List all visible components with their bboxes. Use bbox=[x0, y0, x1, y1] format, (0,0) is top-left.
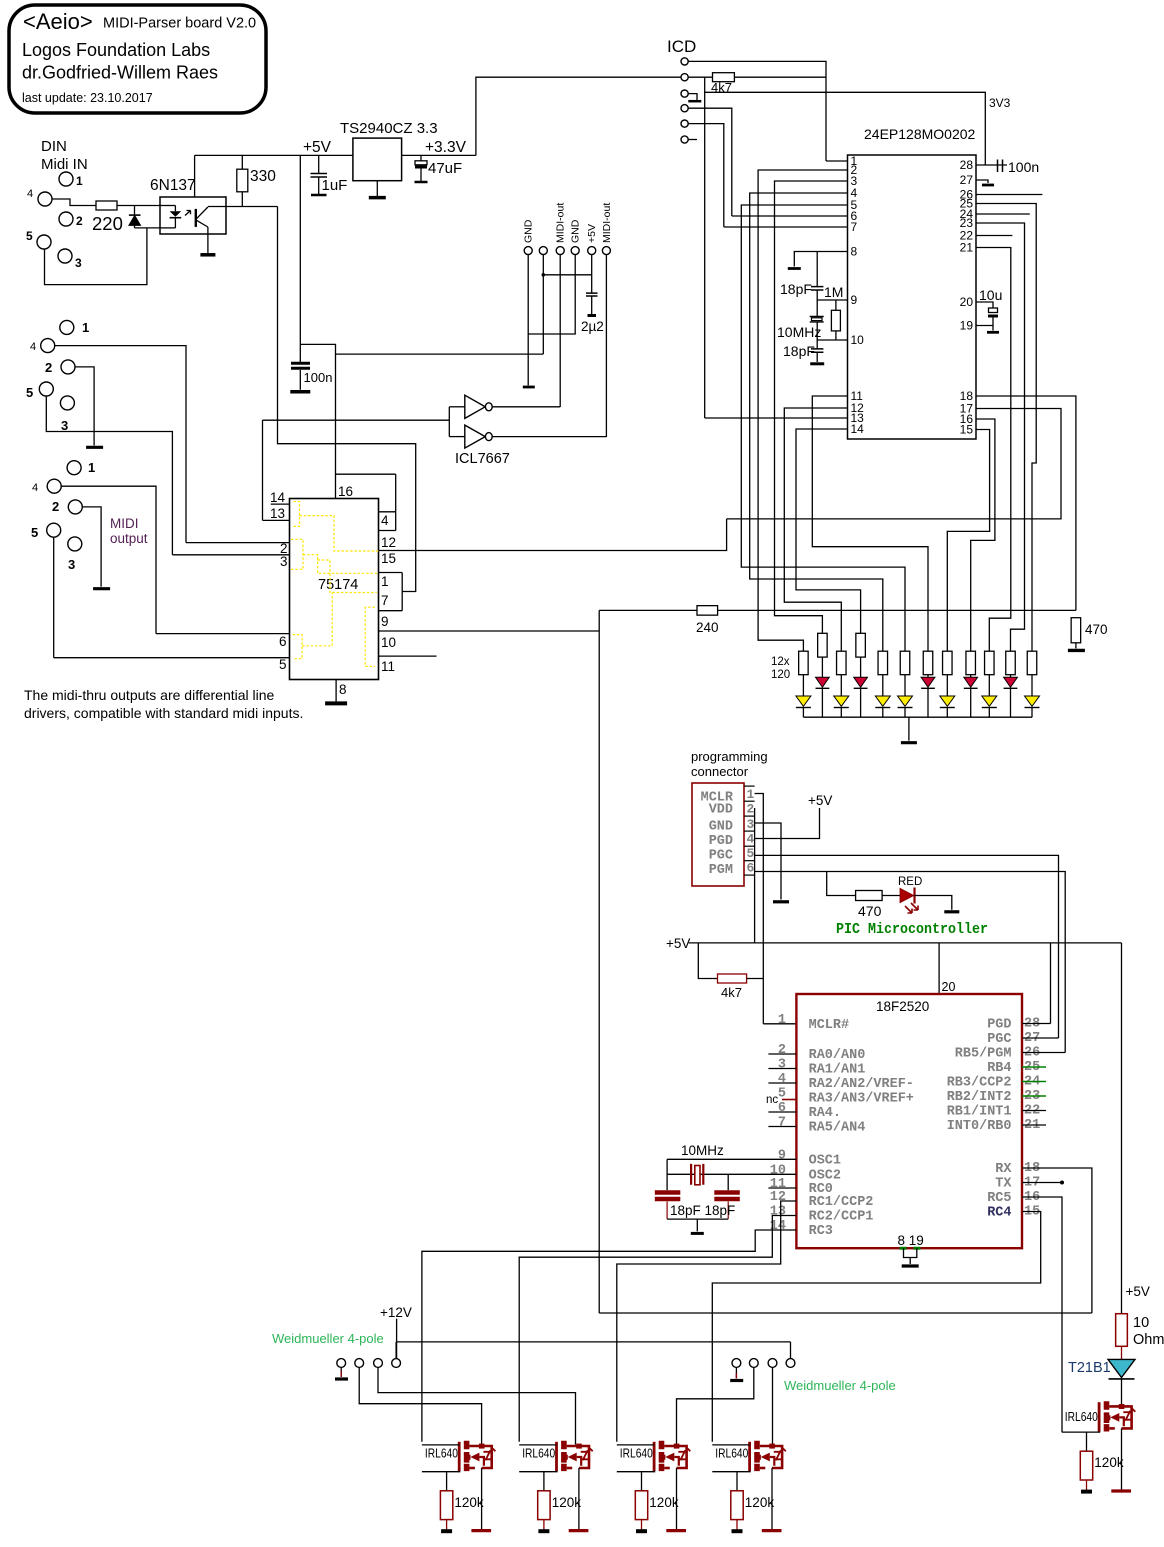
wire header gnd bbox=[527, 255, 529, 386]
regulator TS2940CZ bbox=[353, 138, 402, 181]
header pin 6 bbox=[602, 247, 610, 255]
wire xtal bbox=[816, 300, 818, 317]
header pin 5 bbox=[588, 247, 596, 255]
wire 330 bottom bbox=[241, 192, 243, 207]
svg-text:120k: 120k bbox=[745, 1495, 775, 1510]
svg-text:8: 8 bbox=[339, 682, 347, 697]
wire J1 p4 bbox=[755, 808, 820, 839]
LED yellow col1 bbox=[796, 696, 811, 706]
DIN-out1 pin 5 bbox=[39, 382, 53, 396]
Weidmueller1 pin 3 bbox=[374, 1359, 383, 1368]
svg-text:RA4.: RA4. bbox=[809, 1106, 841, 1121]
wire out2 p4 to 75174 pin6 bbox=[61, 486, 156, 633]
wire U4 pin14 stub bbox=[271, 503, 290, 505]
wire pins4-12 tie bbox=[395, 474, 397, 530]
wire U5 gnd stem bbox=[909, 1258, 911, 1265]
svg-text:1uF: 1uF bbox=[322, 177, 348, 194]
svg-text:3V3: 3V3 bbox=[989, 96, 1011, 110]
svg-text:4: 4 bbox=[778, 1072, 786, 1087]
wire U2 pin6 bbox=[732, 215, 848, 217]
resistor 120 col7 bbox=[923, 651, 933, 675]
inverter U3A ICL7667 bbox=[465, 395, 485, 418]
wire col4 to rail bbox=[860, 688, 862, 717]
wire LED gnd bbox=[908, 717, 910, 741]
svg-text:20: 20 bbox=[960, 295, 974, 309]
resistor 470 (LED) bbox=[856, 891, 883, 901]
svg-text:4: 4 bbox=[30, 341, 36, 353]
wire +12V drop bbox=[396, 1319, 398, 1359]
wire J1 p3 gnd bbox=[755, 823, 781, 900]
svg-text:2: 2 bbox=[45, 360, 52, 375]
LED yellow col5 bbox=[875, 696, 890, 706]
svg-text:last update: 23.10.2017: last update: 23.10.2017 bbox=[22, 91, 153, 105]
svg-text:3: 3 bbox=[778, 1058, 786, 1073]
resistor 120 col9 bbox=[966, 651, 976, 675]
wire U5 pin28 bbox=[1022, 1023, 1051, 1025]
wire ICD3 gnd bbox=[688, 94, 697, 100]
DIN-out2 pin 2 bbox=[68, 500, 82, 514]
svg-text:120k: 120k bbox=[649, 1495, 679, 1510]
svg-text:PGD: PGD bbox=[709, 834, 733, 849]
wire U5 pin10 OSC2 bbox=[667, 1173, 796, 1175]
wire pin20 bbox=[938, 943, 940, 994]
ground U2 pin27 bbox=[982, 184, 994, 187]
Weidmueller1 pin 1 bbox=[337, 1359, 346, 1368]
wire U4 pin7 bbox=[379, 610, 403, 612]
wire ICD4 PGD bbox=[688, 108, 732, 216]
wire pin19 gnd bbox=[992, 326, 994, 331]
wire cap2 to rail bbox=[727, 1202, 729, 1220]
wire U5 pin2 stub bbox=[768, 1053, 796, 1055]
svg-text:18pF 18pF: 18pF 18pF bbox=[670, 1203, 735, 1218]
svg-text:IRL640: IRL640 bbox=[620, 1447, 653, 1461]
svg-text:The midi-thru outputs are diff: The midi-thru outputs are differential l… bbox=[24, 687, 275, 703]
wire U2 pin17 link bbox=[727, 409, 1061, 519]
wire 3V3 riser bbox=[476, 77, 681, 155]
LED yellow col10 bbox=[982, 696, 997, 706]
wire LED common rail bbox=[803, 716, 1032, 718]
svg-text:15: 15 bbox=[960, 423, 974, 437]
wire U5 TX bbox=[1022, 1182, 1062, 1184]
svg-text:4: 4 bbox=[747, 832, 755, 847]
ground W1 bbox=[335, 1377, 348, 1380]
svg-text:3: 3 bbox=[280, 554, 288, 569]
wire U4 pin10 stub bbox=[379, 655, 437, 657]
svg-text:20: 20 bbox=[942, 980, 956, 994]
wire +5V rail bbox=[195, 154, 353, 156]
wire DIN5 return bbox=[45, 228, 147, 285]
svg-text:6: 6 bbox=[778, 1101, 786, 1116]
wire col3 bbox=[840, 675, 842, 696]
wire out1 p2 gnd bbox=[75, 367, 94, 446]
Weidmueller2 pin 2 bbox=[749, 1359, 758, 1368]
wire col12 bbox=[1031, 675, 1033, 696]
ground DIN-out2 bbox=[93, 587, 110, 590]
svg-text:240: 240 bbox=[696, 620, 719, 635]
DIN-in pin 4 bbox=[38, 192, 52, 206]
svg-text:GND: GND bbox=[523, 219, 535, 243]
wire U2 pin16 to LED col9 bbox=[971, 419, 995, 651]
wire +5V to 75174 pin16 bbox=[300, 344, 335, 498]
wire 240 left bbox=[599, 609, 697, 611]
inverter U3B ICL7667 bbox=[465, 425, 485, 448]
wire 470 gnd bbox=[1075, 643, 1077, 649]
svg-text:IRL640: IRL640 bbox=[522, 1447, 555, 1461]
svg-text:RB1/INT1: RB1/INT1 bbox=[947, 1105, 1012, 1120]
DIN-out2 pin 5 bbox=[47, 523, 61, 537]
LED red col9 bbox=[964, 677, 978, 687]
resistor 10 Ohm bbox=[1116, 1314, 1128, 1347]
svg-text:4: 4 bbox=[27, 188, 33, 200]
wire xtal gnd rail bbox=[667, 1218, 728, 1220]
wire tie to vcc bbox=[336, 473, 396, 475]
wire bbox=[835, 300, 837, 310]
svg-text:PGC: PGC bbox=[709, 849, 733, 864]
wire RX long vertical bbox=[598, 610, 600, 1313]
crystal 10MHz (PIC) bbox=[691, 1164, 703, 1185]
wire U2 pin22 stub bbox=[976, 235, 1012, 237]
wire W1 p2 to Q1 drain bbox=[359, 1367, 481, 1444]
wire U4 pin9 long bbox=[379, 630, 600, 632]
LED yellow col8 bbox=[940, 696, 955, 706]
ground U2 pin8 bbox=[788, 267, 801, 270]
svg-text:15: 15 bbox=[381, 551, 396, 566]
wire 4k7 to MCLR bbox=[734, 76, 826, 78]
wire inv1 in bbox=[449, 406, 465, 408]
svg-text:dr.Godfried-Willem Raes: dr.Godfried-Willem Raes bbox=[22, 63, 218, 83]
svg-text:RB4: RB4 bbox=[987, 1061, 1011, 1076]
wire U2 pin19 bbox=[976, 325, 993, 327]
ground U4 bbox=[325, 701, 347, 705]
resistor 220 bbox=[96, 201, 117, 210]
Weidmueller2 pin 1 bbox=[732, 1359, 741, 1368]
wire col2 to rail bbox=[821, 688, 823, 717]
resistor 330 bbox=[237, 169, 248, 192]
wire U2 pin23 to LED col11 bbox=[976, 223, 1025, 651]
capacitor 2u2 bbox=[586, 293, 598, 296]
wire out1 p5 to 75174 pin3 bbox=[46, 396, 172, 555]
wire col11 to rail bbox=[1010, 688, 1012, 717]
svg-text:5: 5 bbox=[747, 846, 755, 861]
wire U5 pin11 stub bbox=[768, 1187, 796, 1189]
svg-text:470: 470 bbox=[1085, 622, 1108, 637]
svg-text:120k: 120k bbox=[454, 1495, 484, 1510]
wire +3.3V rail bbox=[402, 154, 476, 156]
wire U5 RC5 to Q5 gate bbox=[1022, 1197, 1062, 1432]
wire xtal right bbox=[727, 1174, 729, 1190]
wire col7 bbox=[927, 675, 929, 678]
wire U5 pin9 OSC1 bbox=[667, 1158, 796, 1160]
svg-text:RA1/AN1: RA1/AN1 bbox=[809, 1063, 866, 1078]
wire 100n bottom bbox=[299, 370, 301, 390]
Weidmueller1 pin 4 bbox=[392, 1359, 401, 1368]
junction dot TX bbox=[1060, 1181, 1064, 1185]
6N137 led lead2 bbox=[174, 218, 176, 228]
ground LEDs bbox=[901, 741, 917, 744]
wire bbox=[318, 177, 320, 194]
wire header gnd2 bbox=[528, 255, 575, 334]
ground regulator bbox=[369, 196, 386, 200]
DIN-out1 pin 2 bbox=[61, 360, 75, 374]
U5 ground pins 8 19 bbox=[900, 1247, 921, 1250]
ground W2 bbox=[730, 1379, 743, 1382]
wire ICD6 stub bbox=[688, 139, 697, 141]
svg-text:RC4: RC4 bbox=[987, 1206, 1011, 1221]
svg-text:MIDI-out: MIDI-out bbox=[601, 203, 613, 243]
wire U5 pin14 to Q1 gate bbox=[422, 1230, 797, 1442]
wire opto out down bbox=[277, 207, 279, 421]
svg-text:14: 14 bbox=[851, 422, 865, 436]
ground U5 bbox=[902, 1264, 919, 1267]
svg-text:GND: GND bbox=[709, 820, 733, 835]
svg-text:14: 14 bbox=[270, 490, 286, 505]
svg-text:IRL640: IRL640 bbox=[1065, 1410, 1098, 1424]
LED yellow col12 bbox=[1025, 696, 1040, 706]
wire U4 pin13 bbox=[263, 519, 290, 521]
svg-text:9: 9 bbox=[851, 293, 858, 307]
svg-text:28: 28 bbox=[960, 158, 974, 172]
svg-text:6: 6 bbox=[279, 634, 287, 649]
wire out2 p2 gnd bbox=[83, 507, 102, 587]
capacitor 18pF upper bbox=[811, 287, 823, 290]
svg-text:18pF: 18pF bbox=[783, 343, 815, 359]
wire U5 pin12 to Q3 gate bbox=[617, 1201, 797, 1442]
svg-text:Midi IN: Midi IN bbox=[41, 156, 88, 173]
wire +5V down bbox=[299, 155, 301, 362]
resistor 120 col4 bbox=[856, 633, 866, 657]
svg-text:RC5: RC5 bbox=[987, 1191, 1011, 1206]
wire W1 p4 +12V bbox=[395, 1342, 397, 1359]
wire U4 pin15 long to U2 pin17 bbox=[379, 519, 727, 551]
wire U5 pin26 bbox=[1022, 1052, 1065, 1054]
svg-text:24EP128MO0202: 24EP128MO0202 bbox=[864, 126, 976, 142]
wire U5 pin23 green stub bbox=[1022, 1095, 1046, 1097]
transistor Q1 IRL640 bbox=[422, 1441, 496, 1531]
svg-text:2: 2 bbox=[76, 214, 83, 228]
svg-text:21: 21 bbox=[960, 241, 974, 255]
IC U2 24EP128MO0202 bbox=[848, 155, 977, 439]
transistor Q4 IRL640 bbox=[712, 1441, 786, 1531]
wire bbox=[882, 895, 900, 897]
svg-text:8: 8 bbox=[851, 245, 858, 259]
wire xtal top bbox=[816, 252, 818, 287]
J1 pin tick bbox=[744, 860, 755, 862]
wire col11 bbox=[1010, 675, 1012, 678]
wire U5 pin6 stub bbox=[768, 1111, 796, 1113]
svg-text:10: 10 bbox=[851, 333, 865, 347]
wire U2 pin21 to LED col10 bbox=[976, 248, 1011, 652]
DIN-in pin 5 bbox=[37, 235, 51, 249]
svg-text:1: 1 bbox=[778, 1013, 786, 1028]
wire +5V to U5 pin28 bbox=[1050, 943, 1052, 1024]
connector J1 programming bbox=[692, 783, 744, 886]
wire 240 right bbox=[718, 609, 1076, 611]
svg-text:220: 220 bbox=[92, 213, 123, 234]
LED red col11 bbox=[1004, 677, 1018, 687]
wire W1 p3 to Q2 drain bbox=[378, 1367, 576, 1444]
resistor 4k7 MCLR pullup bbox=[713, 73, 735, 82]
svg-text:<Aeio>: <Aeio> bbox=[23, 9, 93, 34]
wire LED to gnd bbox=[915, 896, 952, 910]
ground 470 bbox=[1068, 649, 1085, 652]
svg-text:RA2/AN2/VREF-: RA2/AN2/VREF- bbox=[809, 1077, 914, 1092]
svg-text:3: 3 bbox=[68, 557, 75, 572]
svg-text:RED: RED bbox=[898, 876, 922, 888]
wire bbox=[134, 206, 136, 216]
svg-text:RX: RX bbox=[995, 1162, 1012, 1177]
resistor 1M body bbox=[831, 310, 840, 331]
6N137 led lead bbox=[174, 206, 176, 212]
wire U5 RX down bbox=[1022, 1168, 1092, 1313]
resistor 120 col5 bbox=[878, 651, 888, 675]
svg-text:120k: 120k bbox=[552, 1495, 582, 1510]
svg-text:75174: 75174 bbox=[318, 577, 358, 593]
resistor 120 col12 bbox=[1027, 651, 1037, 675]
resistor 120 col1 bbox=[799, 651, 809, 675]
wire ICD5 PGC bbox=[688, 124, 724, 227]
wire U2 pin2 to LED col1 bbox=[758, 170, 847, 651]
svg-text:+5V: +5V bbox=[586, 224, 598, 243]
wire U2 pin20 bbox=[976, 302, 993, 308]
wire U2 pin1 bbox=[826, 160, 848, 162]
svg-text:1: 1 bbox=[88, 460, 95, 475]
svg-text:5: 5 bbox=[26, 229, 33, 243]
capacitor 100n (75174) bbox=[291, 363, 310, 368]
wire pin13 vertical bbox=[704, 92, 706, 418]
svg-text:18pF: 18pF bbox=[780, 281, 812, 297]
resistor 470 (dsPIC) bbox=[1071, 618, 1081, 643]
wire col10 bbox=[988, 675, 990, 696]
header pin 3 bbox=[556, 247, 564, 255]
ground RED LED bbox=[944, 910, 959, 913]
svg-text:Weidmueller 4-pole: Weidmueller 4-pole bbox=[272, 1331, 384, 1346]
svg-text:GND: GND bbox=[570, 219, 582, 243]
wire header +5V bbox=[591, 255, 593, 294]
svg-text:ICL7667: ICL7667 bbox=[455, 451, 510, 467]
DIN-out1 pin 1 bbox=[60, 320, 74, 334]
svg-text:RC2/CCP1: RC2/CCP1 bbox=[809, 1210, 874, 1225]
svg-text:47uF: 47uF bbox=[428, 160, 462, 177]
LED red col7 bbox=[921, 677, 935, 687]
svg-text:TS2940CZ 3.3: TS2940CZ 3.3 bbox=[340, 120, 438, 137]
wire col12 to rail bbox=[1031, 708, 1033, 718]
svg-text:+5V: +5V bbox=[808, 793, 832, 808]
wire col9 bbox=[970, 675, 972, 678]
svg-text:1: 1 bbox=[76, 174, 83, 188]
svg-text:10: 10 bbox=[1133, 1315, 1149, 1331]
svg-text:10u: 10u bbox=[979, 287, 1002, 303]
resistor 120 col6 bbox=[900, 651, 910, 675]
transistor Q5 IRL640 bbox=[1062, 1401, 1136, 1491]
svg-text:+5V: +5V bbox=[1126, 1284, 1150, 1299]
wire 3V3 to pin28 bbox=[705, 77, 986, 165]
wire U2 pin18 down bbox=[976, 396, 1076, 610]
DIN-out2 pin 4 bbox=[47, 479, 61, 493]
wire inv2 in bbox=[449, 436, 465, 438]
resistor 120 col2 bbox=[818, 633, 828, 657]
wire U5 pin22 stub bbox=[1022, 1110, 1046, 1112]
svg-text:27: 27 bbox=[960, 173, 974, 187]
svg-text:RB3/CCP2: RB3/CCP2 bbox=[947, 1076, 1012, 1091]
wire bbox=[420, 169, 422, 182]
wire U2 pin7 bbox=[724, 226, 848, 228]
DIN-out2 pin 3 bbox=[68, 537, 82, 551]
6N137 led cathode bbox=[160, 227, 175, 229]
6N137 internal LED bbox=[170, 211, 182, 217]
svg-text:RB2/INT2: RB2/INT2 bbox=[947, 1090, 1012, 1105]
wire U4 pin12 bbox=[379, 530, 396, 532]
J1 pin tick bbox=[744, 845, 755, 847]
wire U5 pin27 bbox=[1022, 1037, 1059, 1039]
ground J1 bbox=[773, 900, 789, 903]
svg-text:+12V: +12V bbox=[380, 1305, 412, 1320]
svg-text:nc: nc bbox=[766, 1094, 778, 1106]
6N137 phototransistor bbox=[195, 209, 197, 227]
svg-text:MIDI-Parser board V2.0: MIDI-Parser board V2.0 bbox=[103, 16, 256, 32]
resistor 4k7 (PIC) bbox=[718, 974, 747, 983]
wire bbox=[420, 155, 422, 160]
75174 internal yellow traces bbox=[291, 502, 379, 667]
wire diode to 6N137 cathode bbox=[135, 227, 161, 229]
wire U5 pin13 to Q2 gate bbox=[519, 1216, 796, 1442]
header pin 1 bbox=[524, 247, 532, 255]
ICD pin 6 bbox=[681, 136, 688, 143]
svg-text:programming: programming bbox=[691, 749, 768, 764]
wire U5 RC4 to Q4 gate bbox=[712, 1212, 1040, 1442]
transistor Q2 IRL640 bbox=[519, 1441, 593, 1531]
svg-text:120k: 120k bbox=[1094, 1455, 1124, 1470]
svg-text:Ohm: Ohm bbox=[1133, 1332, 1164, 1348]
wire J1 p6 PGM to PIC26 bbox=[755, 872, 1066, 1053]
wire U2 pin25 to LED col12 bbox=[976, 204, 1036, 652]
wire ICD2 VDD bbox=[688, 76, 712, 78]
crystal 10MHz (dsPIC) bbox=[810, 317, 824, 322]
resistor 120 col3 bbox=[837, 651, 847, 675]
ICD pin 1 bbox=[681, 58, 688, 65]
resistor 120 col11 bbox=[1006, 651, 1016, 675]
wire out1 p4 to 75174 pin2 bbox=[55, 346, 186, 543]
svg-text:connector: connector bbox=[691, 764, 749, 779]
wire U2 pin3 to LED col2 bbox=[775, 181, 848, 633]
J1 pin tick bbox=[744, 785, 755, 787]
wire U2 pin28 bbox=[976, 164, 1007, 166]
svg-text:MIDI-out: MIDI-out bbox=[555, 203, 567, 243]
svg-text:RA5/AN4: RA5/AN4 bbox=[809, 1121, 866, 1136]
svg-text:19: 19 bbox=[960, 319, 974, 333]
transistor Q3 IRL640 bbox=[617, 1441, 691, 1531]
wire col9 to rail bbox=[970, 688, 972, 717]
capacitor 10u tantalum bbox=[989, 308, 998, 313]
LED yellow col3 bbox=[834, 696, 849, 706]
svg-text:5: 5 bbox=[279, 657, 287, 672]
J1 pin tick bbox=[744, 874, 755, 876]
wire W1 p1 gnd bbox=[340, 1367, 342, 1377]
svg-text:7: 7 bbox=[381, 593, 389, 608]
svg-text:3: 3 bbox=[747, 817, 755, 832]
svg-text:PGM: PGM bbox=[709, 863, 733, 878]
wire 18pF to pin9 bbox=[816, 290, 818, 300]
wire 6N137 vcc bbox=[194, 155, 196, 197]
LED RED indicator bbox=[900, 889, 913, 903]
ICD pin 2 bbox=[681, 74, 688, 81]
J1 pin tick bbox=[744, 815, 755, 817]
wire xtal left bbox=[666, 1159, 668, 1190]
wire U5 pin5 stub bbox=[782, 1099, 796, 1101]
wire U2 pin9 bbox=[817, 299, 847, 301]
svg-text:3: 3 bbox=[75, 256, 82, 270]
6N137 led anode bbox=[160, 205, 175, 207]
wire header p2 bbox=[542, 255, 544, 355]
